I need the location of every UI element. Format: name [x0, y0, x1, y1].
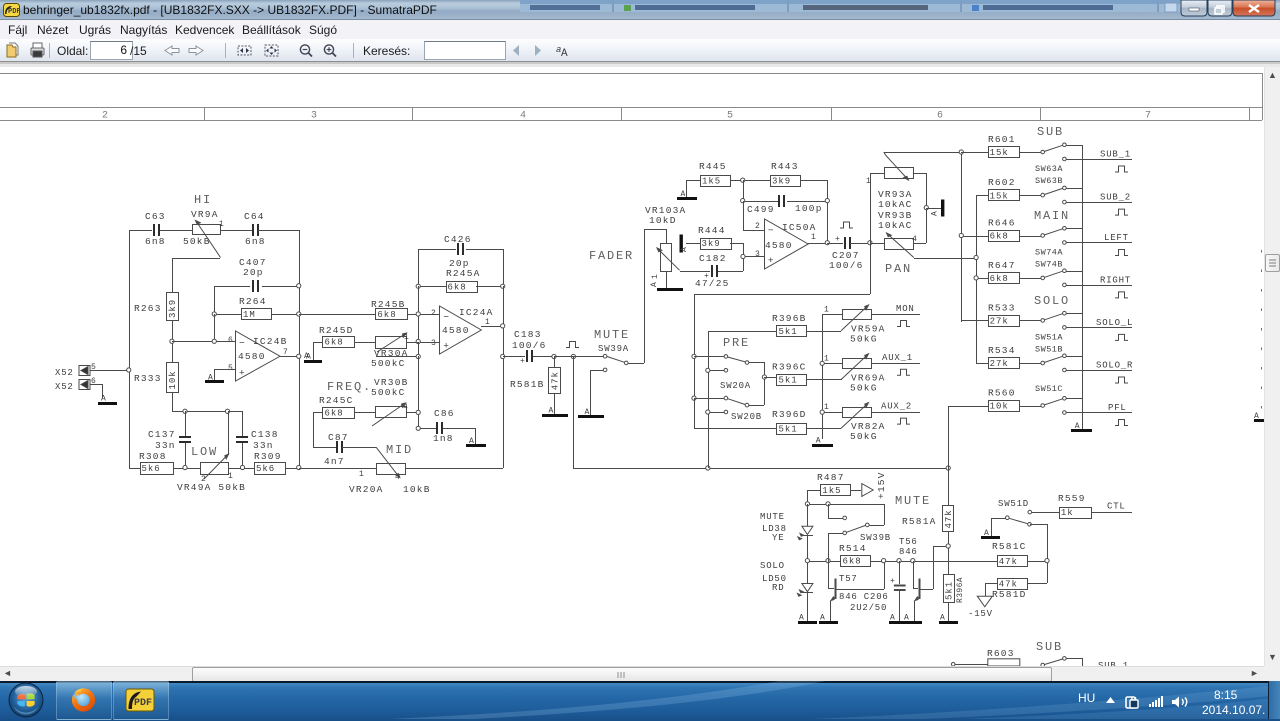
capacitor C86 [418, 408, 476, 444]
svg-text:R245A: R245A [446, 268, 481, 279]
node R443 left [741, 178, 745, 182]
fit width [238, 46, 251, 55]
svg-text:10kB: 10kB [403, 484, 431, 495]
wire IC50A pin2 [743, 201, 764, 231]
potentiometer VR82A [822, 402, 920, 443]
svg-text:10kAC: 10kAC [878, 220, 913, 231]
ground SW51D [981, 529, 1000, 539]
switch SW row SOLO_L [1041, 311, 1132, 329]
input rail vertical [129, 230, 131, 468]
wire LOW top rail [172, 411, 242, 413]
capacitor C138 [236, 411, 279, 468]
right bus vertical [976, 195, 978, 364]
svg-text:6k8: 6k8 [377, 310, 396, 320]
ground R444 sideways [680, 235, 690, 253]
svg-text:R396A: R396A [956, 577, 965, 603]
net label SOLO_L [1096, 318, 1133, 341]
svg-text:T57: T57 [839, 574, 858, 584]
fader VR103A [645, 205, 710, 288]
ground T56 C206 [889, 614, 922, 625]
wire R263 to R333 [172, 321, 174, 362]
window title bar [0, 0, 1280, 20]
switch SW20B [694, 396, 764, 414]
potentiometer VR30B [371, 377, 418, 426]
potentiometer VR69A [822, 353, 920, 394]
svg-text:1: 1 [485, 318, 490, 327]
op-amp IC50A [755, 219, 817, 269]
node R245A right [501, 284, 505, 288]
ground LD50 [798, 614, 817, 625]
capacitor C137 [148, 411, 191, 468]
node VR82A bus [820, 410, 824, 414]
svg-text:SOLO_R: SOLO_R [1096, 361, 1133, 371]
app icon [3, 3, 20, 17]
svg-text:50kB: 50kB [183, 236, 211, 247]
svg-text:LEFT: LEFT [1104, 233, 1129, 243]
svg-text:1: 1 [866, 177, 871, 186]
capacitor C407 [239, 257, 267, 292]
mute drive row [807, 504, 884, 506]
wire VR93B wiper row [914, 258, 976, 260]
node wiper row [416, 354, 420, 358]
node SW39B stub [826, 502, 830, 506]
wire post rail [694, 243, 871, 295]
svg-text:IC24A: IC24A [459, 307, 494, 318]
node output-R443 [825, 241, 829, 245]
wire IC50A output [808, 243, 827, 245]
svg-text:4n7: 4n7 [324, 456, 345, 467]
ground stub right of IC24B [304, 352, 322, 363]
svg-text:CTL: CTL [1107, 502, 1126, 512]
svg-text:+: + [443, 340, 450, 351]
node T57 collector [882, 559, 886, 563]
capacitor C426 [418, 234, 504, 286]
node SW20A post [692, 354, 696, 358]
svg-text:47/25: 47/25 [695, 278, 730, 289]
svg-text:846 C206: 846 C206 [839, 592, 889, 602]
resistor R581D [985, 579, 1047, 601]
svg-text:3k9: 3k9 [772, 176, 791, 186]
svg-text:3: 3 [311, 111, 317, 122]
svg-text:PDF: PDF [134, 698, 152, 709]
wire bottom EQ rail [129, 468, 376, 470]
node solo row base [826, 559, 830, 563]
solo row [807, 561, 840, 563]
resistor R309 [254, 451, 286, 475]
node solo row LED [805, 559, 809, 563]
node C86 left [416, 426, 420, 430]
node LEFT feed [959, 233, 963, 237]
svg-text:4580: 4580 [238, 351, 266, 362]
svg-text:6n8: 6n8 [145, 236, 166, 247]
post rail vertical [694, 294, 696, 428]
svg-text:500kC: 500kC [371, 358, 406, 369]
resistor R396B [772, 313, 841, 337]
svg-text:3k9: 3k9 [168, 299, 178, 318]
sumatra button [113, 681, 169, 720]
svg-text:5k1: 5k1 [779, 327, 798, 337]
capacitor C183 [503, 329, 554, 366]
wire R487 down [807, 490, 809, 504]
svg-text:LOW: LOW [191, 445, 218, 459]
wire C64 to right rail [258, 230, 299, 232]
svg-text:−: − [768, 225, 775, 236]
node C137 top [183, 409, 187, 413]
svg-text:33n: 33n [253, 440, 274, 451]
svg-text:VR20A: VR20A [349, 484, 384, 495]
resistor R487 [807, 472, 861, 496]
svg-text:R487: R487 [817, 472, 845, 483]
svg-text:R445: R445 [699, 161, 727, 172]
svg-text:1M: 1M [243, 310, 256, 320]
svg-text:VR9A: VR9A [191, 209, 219, 220]
svg-text:47k: 47k [999, 557, 1018, 567]
node T56 base top [911, 559, 915, 563]
switch SW39B [828, 504, 869, 561]
svg-text:SUB: SUB [1036, 640, 1063, 654]
svg-text:3: 3 [755, 250, 760, 259]
svg-text:4580: 4580 [765, 240, 793, 251]
svg-text:C86: C86 [434, 408, 455, 419]
resistor R396D [694, 398, 841, 435]
svg-text:10kAC: 10kAC [878, 199, 913, 210]
wire IC24B pin6 [172, 314, 235, 342]
ground R396A [939, 614, 958, 625]
wire mid vertical [418, 356, 420, 428]
node C206 top [897, 559, 901, 563]
svg-text:1: 1 [824, 354, 829, 363]
wire C63 to VR9A [160, 230, 192, 232]
svg-text:15k: 15k [990, 191, 1009, 201]
svg-text:500kC: 500kC [371, 387, 406, 398]
node C207 right [868, 241, 872, 245]
svg-text:5k6: 5k6 [256, 464, 275, 474]
svg-text:5k1: 5k1 [779, 376, 798, 386]
svg-text:RIGHT: RIGHT [1100, 275, 1131, 285]
svg-text:SOLO: SOLO [1034, 294, 1070, 308]
svg-text:R534: R534 [988, 345, 1016, 356]
svg-text:SW20A: SW20A [720, 381, 751, 391]
node R263-R333 junction [170, 339, 174, 343]
resistor R245B [299, 299, 408, 320]
net label AUX_1 [882, 353, 913, 376]
svg-text:3: 3 [431, 339, 436, 348]
net label SOLO_R [1096, 361, 1133, 384]
svg-text:SOLO_L: SOLO_L [1096, 318, 1133, 328]
svg-text:FADER: FADER [589, 249, 634, 263]
svg-text:1: 1 [359, 470, 364, 479]
svg-text:5: 5 [228, 364, 233, 373]
potentiometer VR93A [866, 152, 961, 243]
svg-text:-15V: -15V [968, 609, 993, 619]
svg-text:1k: 1k [1061, 508, 1074, 518]
svg-text:R245D: R245D [319, 325, 354, 336]
svg-text:A: A [680, 247, 689, 252]
scrollbars [1264, 67, 1280, 666]
svg-text:1: 1 [219, 220, 224, 229]
aux pot common bus [822, 314, 824, 439]
column ruler band [0, 73, 1263, 121]
svg-text:SW51B: SW51B [1035, 345, 1063, 355]
svg-text:R514: R514 [839, 543, 867, 554]
switch SW row RIGHT [1041, 269, 1132, 287]
node R264 right [297, 312, 301, 316]
net label RIGHT [1100, 275, 1131, 298]
svg-text:SW20B: SW20B [731, 412, 762, 422]
R560 feed corner [948, 406, 950, 468]
resistor R443 [743, 161, 827, 187]
wire IC24A output [481, 326, 503, 328]
svg-text:2: 2 [102, 111, 108, 122]
svg-text:6k8: 6k8 [325, 408, 344, 418]
resistor R333 [134, 363, 179, 393]
wire X52.5 to input rail [90, 370, 129, 372]
pulse symbol mute [566, 342, 579, 348]
svg-text:PRE: PRE [723, 336, 750, 350]
wire mute to fader [644, 229, 666, 363]
svg-text:+: + [239, 367, 246, 378]
svg-text:R308: R308 [139, 451, 167, 462]
svg-text:1: 1 [824, 306, 829, 315]
node R560 feed [946, 466, 950, 470]
left bus vertical [961, 152, 963, 322]
node C138 top [225, 409, 229, 413]
resistor R245D [313, 325, 355, 360]
svg-text:R581D: R581D [992, 589, 1027, 600]
svg-text:R396C: R396C [772, 362, 807, 373]
wire IC24B output [280, 356, 299, 358]
svg-text:R444: R444 [698, 225, 726, 236]
svg-text:6k8: 6k8 [448, 283, 467, 293]
node wiper-R602 bus [974, 255, 978, 259]
EQ right rail vertical [299, 230, 301, 468]
resistor R396C [764, 362, 842, 386]
svg-text:MON: MON [896, 304, 915, 314]
svg-text:C138: C138 [251, 429, 279, 440]
node SW20B post [692, 396, 696, 400]
svg-text:50kG: 50kG [850, 431, 878, 442]
next channel SUB switch [1041, 657, 1083, 667]
net label MON [896, 304, 915, 327]
svg-text:SW74A: SW74A [1035, 248, 1063, 258]
node C137 bottom [183, 465, 187, 469]
svg-text:SW51D: SW51D [998, 499, 1029, 509]
resistor R559 [1032, 493, 1132, 519]
svg-text:5k6: 5k6 [142, 464, 161, 474]
svg-text:VR49A 50kB: VR49A 50kB [177, 482, 246, 493]
svg-text:6: 6 [228, 336, 233, 345]
power +15V arrow [862, 471, 887, 499]
switch SW row LEFT [1041, 227, 1132, 245]
capacitor C182 [695, 253, 743, 289]
svg-text:R559: R559 [1058, 493, 1086, 504]
ground fader [650, 282, 683, 291]
svg-text:RD: RD [772, 583, 784, 593]
resistor R263 [134, 293, 179, 321]
svg-text:47k: 47k [944, 509, 954, 528]
resistor R560 [948, 388, 1043, 412]
svg-text:R646: R646 [988, 218, 1016, 229]
op-amp IC24A [431, 306, 494, 354]
connector X52 pin 6 [55, 377, 96, 392]
node pin2 [416, 312, 420, 316]
node IC50A pin3 [741, 254, 764, 258]
svg-text:SW39A: SW39A [598, 344, 629, 354]
svg-text:IC24B: IC24B [253, 336, 288, 347]
resistor R396A vertical [944, 575, 966, 622]
connector X52 pin 5 [55, 363, 96, 378]
svg-text:1: 1 [228, 472, 233, 481]
svg-text:R601: R601 [988, 134, 1016, 145]
capacitor C63 [145, 211, 166, 247]
svg-text:1k5: 1k5 [702, 176, 721, 186]
zoom out [300, 45, 309, 54]
svg-text:SUB_2: SUB_2 [1100, 193, 1131, 203]
resistor R514 [839, 543, 997, 567]
svg-text:R309: R309 [254, 451, 282, 462]
capacitor C207 [827, 235, 870, 271]
svg-text:AUX_1: AUX_1 [882, 353, 913, 363]
svg-text:50kG: 50kG [850, 382, 878, 393]
back/forward [165, 46, 179, 55]
potentiometer VR59A [822, 304, 920, 345]
svg-text:SW39B: SW39B [860, 533, 891, 543]
net label PFL [1108, 403, 1128, 426]
zoom in [324, 45, 333, 54]
svg-text:MAIN: MAIN [1034, 209, 1070, 223]
switch common bus [1082, 145, 1084, 429]
pre rail vertical [708, 331, 776, 468]
resistor R581B [510, 356, 561, 414]
svg-text:20p: 20p [243, 267, 264, 278]
open icon [7, 45, 16, 57]
svg-text:SUB: SUB [1037, 125, 1064, 139]
node LED top [805, 502, 809, 506]
switch SW51D [991, 510, 1048, 583]
svg-text:IC50A: IC50A [782, 222, 817, 233]
svg-text:1k5: 1k5 [822, 486, 841, 496]
resistor R308 [139, 451, 174, 475]
svg-text:R581A: R581A [902, 516, 937, 527]
svg-text:SW63B: SW63B [1035, 176, 1063, 186]
menu bar [0, 20, 1280, 40]
node C183 left [501, 354, 505, 358]
svg-text:AUX_2: AUX_2 [881, 402, 912, 412]
svg-text:−: − [443, 312, 450, 323]
node VR69A bus [820, 361, 824, 365]
svg-text:C87: C87 [328, 432, 349, 443]
switch SW row PFL [1041, 397, 1132, 415]
node C499 right [825, 199, 829, 203]
wire pots common to ground [926, 208, 941, 210]
svg-text:SW51A: SW51A [1035, 333, 1063, 343]
svg-text:SW51C: SW51C [1035, 384, 1063, 394]
svg-text:47k: 47k [550, 371, 560, 390]
svg-text:50kG: 50kG [850, 334, 878, 345]
svg-text:MID: MID [386, 443, 413, 457]
node C499 left [741, 199, 745, 203]
sheet right edge dashed [1261, 250, 1263, 420]
svg-text:C64: C64 [244, 211, 265, 222]
system tray [1078, 691, 1095, 705]
node IC24B output [297, 354, 301, 358]
svg-text:−: − [239, 337, 246, 348]
taskbar [0, 681, 1280, 721]
svg-text:+: + [835, 235, 840, 244]
svg-text:4: 4 [520, 111, 526, 122]
svg-text:R245C: R245C [319, 395, 354, 406]
ground T57 [819, 614, 838, 625]
resistor R245A [418, 268, 503, 293]
capacitor C87 [313, 412, 376, 467]
svg-text:A: A [931, 211, 940, 216]
svg-text:X52: X52 [55, 382, 74, 392]
node R581B top [552, 354, 556, 358]
firefox button [56, 681, 112, 720]
node IC24A output [501, 324, 505, 328]
next channel R603 [951, 648, 1019, 666]
node R581C right [1045, 559, 1049, 563]
svg-text:R560: R560 [988, 388, 1016, 399]
svg-text:R443: R443 [771, 161, 799, 172]
wire VR9A to C64 [220, 230, 252, 232]
svg-text:15k: 15k [990, 148, 1009, 158]
fit page [265, 45, 278, 56]
svg-text:100p: 100p [795, 203, 823, 214]
svg-text:27k: 27k [990, 359, 1009, 369]
svg-text:4: 4 [395, 473, 400, 482]
svg-text:PFL: PFL [1108, 403, 1127, 413]
op-amp IC24B [228, 331, 288, 381]
wire VR9A wiper down [172, 258, 220, 292]
svg-text:33n: 33n [155, 440, 176, 451]
power -15V arrow [968, 596, 993, 619]
wire top EQ rail [129, 230, 152, 232]
svg-text:SOLO: SOLO [760, 561, 785, 571]
svg-text:SW74B: SW74B [1035, 260, 1063, 270]
node SW20A pre tap [706, 368, 710, 372]
svg-text:R333: R333 [134, 373, 162, 384]
node EQ rail right [297, 465, 301, 469]
svg-text:+: + [520, 357, 525, 366]
svg-text:2: 2 [755, 222, 760, 231]
svg-text:+: + [768, 255, 775, 266]
svg-text:5k1: 5k1 [779, 424, 798, 434]
resistor R647 [976, 260, 1043, 284]
resistor R445 [686, 161, 743, 197]
svg-text:R581C: R581C [992, 541, 1027, 552]
svg-text:6k8: 6k8 [990, 232, 1009, 242]
resistor R444 [686, 225, 744, 271]
potentiometer VR30A [355, 332, 418, 369]
svg-text:T56: T56 [899, 537, 918, 547]
node RIGHT feed [974, 276, 978, 280]
svg-text:6: 6 [937, 111, 943, 122]
svg-text:6k8: 6k8 [843, 557, 862, 567]
svg-text:47k: 47k [999, 580, 1018, 590]
transistor T57 [828, 533, 885, 621]
svg-text:6k8: 6k8 [990, 274, 1009, 284]
svg-text:R581B: R581B [510, 379, 545, 390]
potentiometer VR49A [177, 411, 246, 493]
wire C407 row [214, 286, 299, 314]
svg-text:27k: 27k [990, 317, 1009, 327]
wire pre-fader rail down [573, 356, 948, 469]
LED LD50 [797, 561, 813, 621]
capacitor C499 [743, 180, 828, 243]
svg-text:3k9: 3k9 [702, 239, 721, 249]
svg-text:6k8: 6k8 [325, 338, 344, 348]
